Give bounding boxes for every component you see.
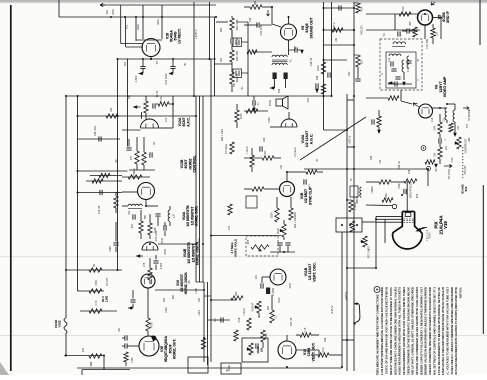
svg-text:TO HV: TO HV bbox=[430, 232, 432, 239]
svg-text:+435 V.: +435 V. bbox=[344, 291, 348, 301]
wire vertical bus bbox=[65, 96, 67, 318]
wire bbox=[400, 90, 402, 101]
wire bbox=[86, 180, 122, 182]
label V11B vertical oscillator bbox=[304, 262, 316, 281]
wire bbox=[143, 137, 145, 152]
wire plate of V9 bbox=[288, 17, 290, 24]
wire bbox=[164, 222, 166, 226]
resistor R81 bbox=[158, 102, 169, 106]
svg-text:.0015: .0015 bbox=[164, 248, 167, 255]
wire bbox=[271, 295, 273, 300]
wire bbox=[146, 205, 158, 207]
CRT grid dashes bbox=[404, 219, 414, 223]
svg-text:A 500: A 500 bbox=[134, 75, 138, 82]
wire bbox=[287, 246, 289, 252]
resistor R89 horiz hold bbox=[228, 204, 232, 215]
svg-text:C30: C30 bbox=[263, 137, 266, 142]
svg-text:47K: 47K bbox=[132, 223, 134, 228]
svg-text:470K: 470K bbox=[151, 322, 154, 328]
wire V18 plate strap bbox=[136, 39, 162, 41]
junction bbox=[353, 29, 355, 31]
coil T4 tertiary bbox=[407, 56, 409, 68]
wire bbox=[143, 165, 145, 170]
wire vertical bus bbox=[331, 2, 333, 96]
notes text block bbox=[380, 287, 462, 380]
junction bbox=[288, 16, 290, 18]
ground bbox=[402, 82, 406, 86]
wire bbox=[270, 87, 275, 89]
wire vertical bus bbox=[210, 282, 212, 362]
resistor R96 bbox=[404, 179, 417, 183]
wire CRT anode lead bbox=[406, 181, 408, 212]
junction bbox=[210, 235, 212, 237]
junction bbox=[331, 95, 333, 97]
wire bbox=[378, 110, 380, 116]
wire bbox=[347, 199, 351, 201]
wire bbox=[147, 331, 149, 336]
svg-text:100K: 100K bbox=[240, 113, 243, 119]
wire bbox=[297, 49, 302, 51]
wire bbox=[440, 18, 442, 40]
wire bbox=[262, 6, 272, 8]
junction bbox=[346, 168, 348, 170]
wire bbox=[347, 267, 376, 269]
wire bbox=[136, 164, 138, 170]
ground bbox=[300, 50, 304, 54]
capacitor C56 bbox=[125, 335, 127, 340]
svg-text:HORIZ. DISCH.: HORIZ. DISCH. bbox=[184, 272, 188, 295]
wire bbox=[296, 349, 310, 351]
capacitor C31 bbox=[253, 100, 255, 105]
wire bbox=[432, 24, 434, 28]
junction bbox=[446, 103, 448, 105]
wire bbox=[236, 122, 238, 128]
capacitor C77 2000 bbox=[153, 261, 158, 263]
wire vertical bus bbox=[209, 2, 211, 59]
resistor R51 bbox=[89, 354, 102, 358]
wire bbox=[80, 310, 117, 312]
wire rung bbox=[324, 129, 348, 131]
horizontal oscillator tube V14A bbox=[138, 183, 155, 200]
wire bbox=[264, 188, 280, 190]
svg-text:ALL CONDENSER VALUES IN MICROF: ALL CONDENSER VALUES IN MICROFARADS UNLE… bbox=[424, 287, 428, 375]
svg-text:SPECIFIED OTHERWISE ON THE SCH: SPECIFIED OTHERWISE ON THE SCHEMATIC DIA… bbox=[406, 287, 410, 375]
scan bottom-left corner bbox=[0, 362, 9, 375]
resistor R46 bbox=[356, 3, 360, 13]
wire bbox=[132, 304, 134, 309]
wire bbox=[354, 2, 358, 4]
capacitor inside IF can bbox=[406, 61, 411, 63]
wire bottom rail bbox=[77, 367, 342, 369]
wire bbox=[125, 17, 127, 47]
label B2 bbox=[101, 295, 108, 302]
svg-text:DET: DET bbox=[307, 97, 310, 102]
wire bbox=[140, 210, 142, 221]
ground bbox=[128, 306, 132, 310]
wire bbox=[66, 269, 122, 271]
pot circle bbox=[427, 167, 431, 171]
svg-text:ARE 1/2 WATT, CARBON, 1/2 WATT: ARE 1/2 WATT, CARBON, 1/2 WATT UNLESS OT… bbox=[411, 287, 415, 375]
svg-text:C51 1000: C51 1000 bbox=[164, 73, 168, 85]
peaking coil L6 bbox=[453, 110, 455, 122]
svg-text:C74: C74 bbox=[228, 225, 231, 230]
svg-text:CONTROL: CONTROL bbox=[193, 154, 197, 172]
svg-text:SOUND OUT: SOUND OUT bbox=[309, 17, 313, 39]
capacitor C47 bbox=[100, 190, 102, 195]
svg-text:R93: R93 bbox=[220, 27, 223, 32]
wire bbox=[211, 235, 281, 237]
wire rung bbox=[208, 319, 231, 321]
capacitor C18 bbox=[395, 81, 397, 86]
wire bbox=[149, 214, 151, 223]
capacitor C12 bbox=[407, 28, 409, 33]
svg-text:VERT. OUT.: VERT. OUT. bbox=[311, 342, 315, 361]
wire bbox=[288, 112, 290, 119]
wire bbox=[251, 148, 253, 155]
label V13A 6CN7 AFC bbox=[178, 117, 190, 127]
wire plate V12 bbox=[296, 349, 319, 351]
resistor R64 pot bbox=[251, 245, 269, 249]
wire bbox=[316, 89, 318, 94]
svg-text:.039: .039 bbox=[129, 210, 131, 215]
wire bbox=[439, 134, 441, 139]
wire bbox=[366, 97, 388, 99]
svg-text:R74: R74 bbox=[82, 347, 85, 352]
svg-text:3.9K: 3.9K bbox=[434, 125, 437, 130]
arrow right bbox=[463, 107, 469, 110]
capacitor C58 bbox=[221, 317, 223, 322]
wire vertical bus bbox=[207, 282, 209, 365]
svg-text:FUSE: FUSE bbox=[229, 364, 231, 371]
wire bbox=[142, 5, 144, 39]
wire bbox=[366, 204, 392, 207]
capacitor C62 bbox=[277, 243, 282, 245]
svg-text:C68: C68 bbox=[324, 337, 327, 342]
right page border line bbox=[482, 185, 484, 334]
wire rung bbox=[155, 289, 204, 291]
capacitor C65 bbox=[261, 283, 263, 288]
wire vertical bus bbox=[77, 96, 79, 291]
wire rung bbox=[324, 7, 355, 9]
svg-text:6.8K: 6.8K bbox=[239, 317, 241, 322]
wire bbox=[270, 251, 295, 253]
svg-text:CATHODE RAY TUBE AND ANODE VOL: CATHODE RAY TUBE AND ANODE VOLTAGE TO BE… bbox=[389, 287, 393, 375]
resistor R69 bbox=[247, 318, 251, 330]
wire vertical bus bbox=[195, 96, 197, 282]
svg-text:YEL: YEL bbox=[105, 9, 109, 14]
junction bbox=[375, 218, 377, 220]
speaker bbox=[276, 96, 288, 109]
svg-text:TO →: TO → bbox=[155, 57, 159, 64]
wire stub bbox=[286, 276, 300, 278]
svg-text:.005: .005 bbox=[468, 137, 471, 142]
horizontal output tube V15 bbox=[139, 336, 159, 356]
wire bbox=[139, 73, 144, 75]
plate cap blob bbox=[151, 336, 157, 342]
svg-text:10K: 10K bbox=[434, 152, 437, 157]
svg-text:C50: C50 bbox=[125, 61, 127, 66]
capacitor C40 bbox=[339, 5, 341, 10]
vertical linearity box bbox=[246, 236, 278, 256]
wire bbox=[90, 175, 122, 177]
alignment legend symbol bbox=[374, 287, 380, 293]
svg-text:R43 22K: R43 22K bbox=[361, 25, 364, 35]
dashed lead bbox=[462, 147, 464, 178]
junction bbox=[353, 146, 355, 148]
ground bbox=[136, 254, 140, 258]
wire grid of V9 bbox=[272, 24, 281, 27]
wire bbox=[276, 197, 278, 208]
wire rail bbox=[78, 115, 197, 117]
svg-text:LIN: LIN bbox=[259, 348, 263, 352]
wire bbox=[172, 69, 174, 74]
wire bbox=[145, 200, 147, 206]
capacitor C36 bbox=[295, 47, 297, 52]
junction bbox=[150, 58, 152, 60]
svg-text:C14: C14 bbox=[389, 57, 391, 62]
tube V10A half triode bbox=[281, 119, 297, 127]
svg-text:.047: .047 bbox=[119, 327, 121, 332]
resistor R87 bbox=[148, 223, 152, 235]
junction bbox=[323, 7, 325, 9]
junction bbox=[202, 243, 204, 245]
svg-text:1.5K: 1.5K bbox=[160, 96, 163, 101]
svg-text:3RD IF: 3RD IF bbox=[446, 10, 450, 22]
svg-text:C19: C19 bbox=[431, 117, 434, 122]
wire bbox=[439, 114, 441, 122]
capacitor C79 bbox=[164, 225, 166, 230]
label V5 6CB6 3RD IF bbox=[438, 10, 451, 22]
label V14B horiz discharge bbox=[183, 241, 200, 265]
resistor R85 bbox=[230, 142, 234, 154]
wire vertical bus bbox=[193, 2, 195, 96]
svg-text:NOMINAL SETTINGS OF CONTROLS A: NOMINAL SETTINGS OF CONTROLS AND CHANNEL… bbox=[432, 287, 436, 375]
svg-text:12K: 12K bbox=[436, 31, 439, 36]
junction bbox=[353, 44, 355, 46]
svg-text:FROM: FROM bbox=[54, 320, 58, 328]
svg-text:C86 .01: C86 .01 bbox=[398, 160, 401, 169]
wire bbox=[142, 59, 144, 66]
sound output tube V9 bbox=[281, 24, 297, 40]
wire bbox=[80, 290, 104, 292]
wire bbox=[244, 6, 250, 8]
wire bbox=[164, 231, 166, 236]
wire vertical bus bbox=[203, 282, 205, 362]
IF amplifier tube V5 bbox=[418, 10, 433, 25]
junction bbox=[65, 95, 67, 97]
CRT base key bbox=[405, 213, 411, 217]
wire bbox=[169, 222, 171, 226]
capacitor C14 bbox=[391, 61, 393, 66]
svg-text:CIRCLED LETTERS INDICATE ALIGN: CIRCLED LETTERS INDICATE ALIGNMENT AND T… bbox=[376, 294, 380, 375]
wire stub bbox=[90, 362, 92, 366]
capacitor C80 bbox=[231, 38, 233, 43]
svg-text:470K: 470K bbox=[268, 117, 271, 123]
junction bbox=[346, 129, 348, 131]
svg-text:SYNC CLIP: SYNC CLIP bbox=[308, 186, 312, 205]
svg-text:VERT: VERT bbox=[256, 346, 260, 353]
svg-text:VERT: VERT bbox=[277, 227, 280, 234]
wire vertical bus bbox=[199, 96, 201, 282]
wire rung bbox=[347, 146, 354, 148]
wire bbox=[271, 300, 273, 310]
svg-text:.0039: .0039 bbox=[162, 237, 164, 243]
svg-text:B2 X: B2 X bbox=[101, 296, 105, 302]
inner can bbox=[386, 52, 416, 88]
resistor R49 bbox=[106, 114, 118, 118]
junction bbox=[323, 95, 325, 97]
wire bbox=[82, 369, 130, 371]
horizontal discharge tube V14B bbox=[142, 242, 158, 250]
svg-text:4.5K: 4.5K bbox=[451, 157, 454, 162]
potentiometer CONTRAST bbox=[457, 137, 461, 149]
ground bbox=[133, 105, 137, 109]
wire bbox=[156, 103, 158, 105]
capacitor C51 filter bbox=[140, 66, 145, 68]
capacitor C13 bbox=[398, 31, 400, 36]
ground bbox=[169, 72, 173, 76]
svg-text:+135: +135 bbox=[194, 288, 198, 294]
arrow second anode bbox=[417, 228, 428, 232]
wire bbox=[149, 235, 151, 239]
arrow plate V5 bbox=[431, 2, 435, 5]
wire plate V6 bbox=[433, 107, 448, 109]
svg-text:1V: 1V bbox=[199, 238, 201, 241]
yoke spring bbox=[64, 318, 67, 334]
svg-text:COIL RESISTANCES NOT GIVEN ARE: COIL RESISTANCES NOT GIVEN ARE UNDER ONE… bbox=[393, 287, 397, 375]
wire into V18 bbox=[126, 46, 143, 48]
resistor R42 bbox=[332, 28, 343, 32]
junction bbox=[117, 269, 119, 271]
wire bbox=[122, 205, 128, 207]
right page border top segment bbox=[479, 0, 481, 45]
junction bbox=[271, 6, 273, 8]
svg-text:BRIGHTNESS: BRIGHTNESS bbox=[410, 182, 413, 199]
wire bbox=[286, 335, 288, 341]
junction bbox=[172, 103, 174, 105]
capacitor C41 bbox=[328, 72, 330, 77]
vert lin box bbox=[242, 338, 268, 362]
wire bbox=[253, 51, 272, 53]
label V9 6AQ5 SOUND OUT bbox=[301, 17, 313, 39]
capacitor C20 bbox=[372, 119, 374, 124]
svg-text:CONTRAST: CONTRAST bbox=[464, 138, 468, 153]
svg-text:L40: L40 bbox=[379, 159, 382, 164]
wire bbox=[115, 208, 117, 213]
svg-text:2.7K: 2.7K bbox=[305, 327, 307, 332]
pot arrow bbox=[259, 249, 262, 252]
svg-text:5.6K: 5.6K bbox=[361, 6, 364, 11]
svg-text:+415 V.: +415 V. bbox=[194, 29, 198, 39]
svg-text:A.F.C.: A.F.C. bbox=[186, 117, 190, 127]
svg-text:RED: RED bbox=[136, 24, 140, 30]
junction bbox=[440, 17, 442, 19]
wire bbox=[141, 112, 143, 119]
wire top rail bbox=[100, 4, 216, 6]
junction bbox=[346, 339, 348, 341]
potentiometer ION TRAP bbox=[363, 236, 367, 247]
resistor R18 bbox=[449, 123, 453, 132]
junction bbox=[77, 95, 79, 97]
label FROM YOKE bbox=[54, 320, 61, 328]
wire bbox=[244, 110, 268, 112]
wire bbox=[115, 247, 117, 253]
wire cathode V5 bbox=[424, 25, 426, 39]
junction bbox=[215, 16, 217, 18]
wire bbox=[290, 197, 292, 208]
alignment point bbox=[421, 146, 426, 151]
electrolytic capacitor C66 bbox=[266, 288, 270, 295]
wire bbox=[103, 356, 105, 370]
svg-text:ALL CONDENSER CAPACITY FOLLOWE: ALL CONDENSER CAPACITY FOLLOWED BY V. DE… bbox=[419, 287, 423, 375]
svg-text:+415: +415 bbox=[197, 309, 201, 316]
wire bbox=[454, 104, 456, 110]
svg-text:1,065: 1,065 bbox=[104, 295, 108, 302]
coil T4 primary bbox=[393, 42, 406, 44]
label B3 B10 bbox=[461, 184, 468, 193]
resistor R97 bbox=[382, 198, 393, 202]
wire bbox=[258, 313, 260, 318]
resistor R83 bbox=[142, 152, 146, 165]
svg-text:150V: 150V bbox=[109, 246, 112, 252]
capacitor C34 bbox=[257, 22, 259, 27]
ground bbox=[434, 164, 438, 168]
capacitor C32 bbox=[260, 146, 262, 151]
ground bbox=[377, 130, 381, 134]
wire bbox=[242, 72, 249, 74]
resistor R56 bbox=[124, 352, 128, 362]
label V12 12B4 VERT OUT bbox=[303, 342, 315, 361]
svg-text:R67: R67 bbox=[267, 305, 270, 310]
wire bbox=[136, 137, 138, 151]
transformer core bbox=[392, 46, 405, 48]
svg-text:47K: 47K bbox=[466, 123, 469, 128]
boxed capacitor C81 bbox=[233, 38, 242, 47]
wire bbox=[122, 129, 141, 131]
junction bbox=[117, 115, 119, 117]
wire bbox=[287, 171, 300, 173]
yoke hook bbox=[354, 303, 360, 322]
capacitor C17 bbox=[391, 69, 396, 71]
junction bbox=[124, 16, 126, 18]
svg-text:10K: 10K bbox=[335, 37, 338, 42]
wire bbox=[133, 106, 141, 108]
wire bbox=[231, 30, 233, 38]
wire jog bbox=[204, 295, 211, 297]
wire bbox=[122, 337, 125, 339]
wire bbox=[391, 181, 404, 183]
width coil box bbox=[350, 186, 358, 197]
svg-text:C16 .005: C16 .005 bbox=[426, 38, 429, 48]
junction bbox=[145, 205, 147, 207]
wire bbox=[384, 219, 386, 243]
wire bbox=[244, 157, 262, 159]
dashes to HV bbox=[426, 230, 428, 241]
capacitor C49 bbox=[113, 243, 118, 245]
capacitor C55 bbox=[130, 300, 135, 302]
video amplifier tube V6 bbox=[419, 104, 433, 118]
wire bbox=[128, 307, 133, 309]
junction bbox=[353, 29, 355, 31]
wire to CRT cathode bbox=[427, 169, 429, 186]
junction bbox=[117, 115, 119, 117]
capacitor C72 bbox=[150, 152, 152, 157]
capacitor C15 bbox=[395, 77, 400, 79]
resistor R48 bbox=[114, 196, 118, 208]
svg-text:TO T2: TO T2 bbox=[156, 90, 159, 97]
resistor R55 bbox=[146, 318, 150, 331]
capacitor C70 bbox=[153, 103, 155, 108]
